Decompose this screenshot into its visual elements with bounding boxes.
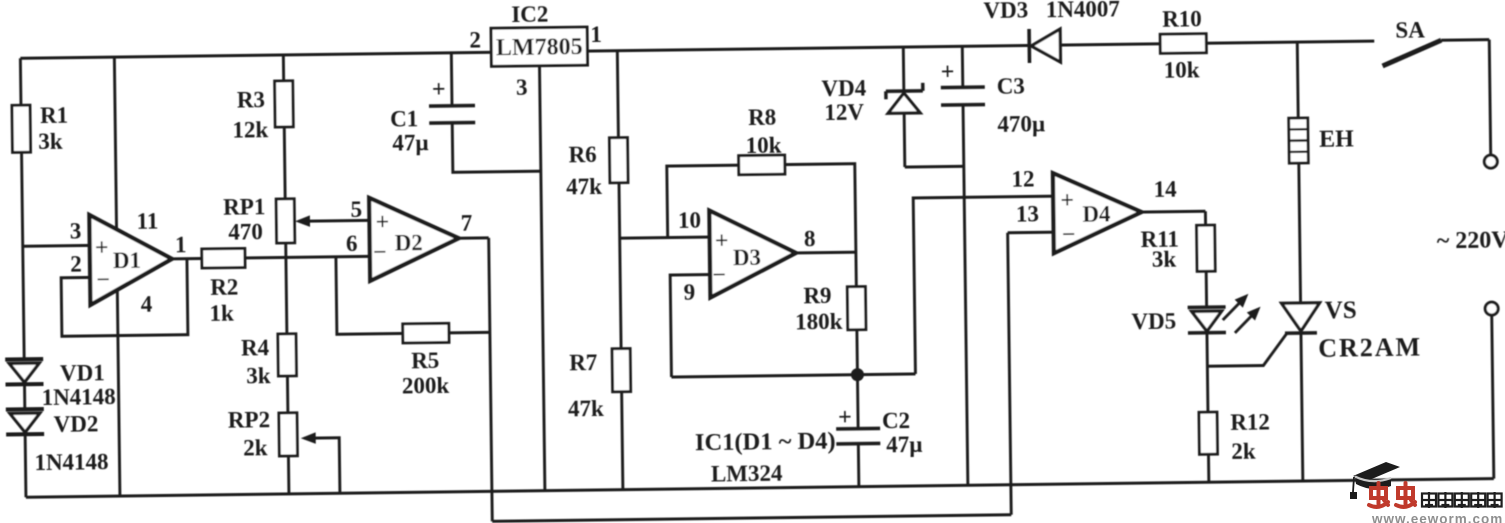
svg-text:D2: D2 (395, 230, 423, 255)
svg-text:470µ: 470µ (997, 111, 1045, 137)
LED VD5 emission arrows (1223, 299, 1244, 320)
svg-text:www.eeworm.com: www.eeworm.com (1371, 512, 1503, 523)
svg-text:CR2AM: CR2AM (1318, 332, 1422, 362)
svg-text:R7: R7 (569, 350, 597, 375)
terminal upper AC (1489, 40, 1490, 155)
svg-text:3k: 3k (38, 129, 63, 154)
capacitor C3 470u (961, 46, 964, 87)
svg-text:1k: 1k (209, 300, 234, 325)
svg-text:−: − (96, 267, 110, 293)
svg-text:R12: R12 (1230, 409, 1270, 435)
svg-text:7: 7 (461, 210, 473, 235)
watermark site name characters (1422, 492, 1436, 508)
wire RP1 wiper to D2 pin 5 (307, 219, 369, 223)
svg-text:VD5: VD5 (1131, 308, 1176, 334)
wire IC2 pin 3 ground lead (539, 66, 544, 491)
svg-text:R1: R1 (40, 102, 68, 127)
resistor R4 (286, 243, 287, 334)
svg-text:C1: C1 (390, 106, 418, 131)
resistor R12 (1199, 412, 1218, 454)
resistor R10 (1160, 34, 1206, 54)
resistor R5 feedback (336, 256, 403, 334)
wire left rail (19, 58, 22, 105)
svg-text:VD1: VD1 (60, 360, 105, 386)
svg-text:12V: 12V (824, 99, 864, 125)
watermark graduation cap logo (1350, 462, 1400, 499)
wire D3 output pin 8 (796, 251, 856, 255)
svg-text:VS: VS (1325, 297, 1357, 324)
resistor R9 (854, 252, 857, 286)
wire VD5 cathode to R12 (1207, 333, 1208, 412)
svg-text:1N4007: 1N4007 (1046, 0, 1120, 22)
svg-text:5: 5 (350, 197, 362, 222)
resistor R11 (1197, 225, 1216, 271)
svg-text:470: 470 (228, 219, 263, 244)
wire D1 output node (172, 257, 202, 260)
diode VD3 1N4007 (1027, 29, 1031, 63)
op-amp D4 (1053, 172, 1142, 253)
svg-text:1: 1 (175, 232, 187, 257)
svg-text:47k: 47k (566, 174, 602, 199)
svg-text:10k: 10k (1164, 57, 1200, 82)
svg-text:12k: 12k (232, 117, 268, 142)
resistor R8 hysteresis (667, 165, 740, 237)
wire lowest return rail (492, 515, 1011, 522)
svg-text:+: + (941, 60, 955, 86)
wire integrator node bus (671, 374, 915, 377)
svg-text:SA: SA (1395, 17, 1425, 42)
svg-text:VD3: VD3 (983, 0, 1028, 23)
svg-text:3k: 3k (246, 363, 271, 388)
wire D1 noninverting input pin 3 (23, 244, 90, 248)
svg-text:6: 6 (346, 231, 358, 256)
wire top supply rail (20, 52, 491, 58)
op-amp D1 (89, 214, 172, 305)
svg-text:2: 2 (70, 251, 82, 276)
svg-text:47µ: 47µ (392, 130, 429, 155)
svg-text:+: + (375, 210, 389, 236)
wire bottom ground rail (26, 479, 1494, 498)
wire D3 inverting input pin 9 loop (670, 275, 711, 378)
watermark chongchong red characters (1369, 483, 1388, 507)
svg-text:11: 11 (136, 208, 158, 233)
svg-text:9: 9 (683, 280, 695, 305)
svg-text:180k: 180k (795, 309, 843, 335)
wire D3 noninverting input pin 10 (620, 237, 710, 238)
wire D1 pin 11 supply lead (114, 57, 116, 229)
svg-text:IC2: IC2 (511, 1, 548, 26)
svg-text:VD4: VD4 (821, 75, 867, 101)
svg-text:200k: 200k (402, 373, 450, 399)
svg-text:10k: 10k (745, 132, 781, 157)
terminal lower AC (1485, 302, 1498, 315)
svg-text:13: 13 (1016, 201, 1039, 226)
potentiometer RP2 (279, 413, 298, 456)
wire D1 pin 4 ground lead (117, 290, 120, 496)
op-amp D2 (369, 197, 459, 281)
svg-text:1N4148: 1N4148 (41, 384, 115, 410)
svg-text:47µ: 47µ (886, 432, 923, 457)
node integrator junction (851, 369, 863, 381)
svg-text:R10: R10 (1162, 6, 1202, 32)
capacitor C2 (856, 375, 860, 429)
svg-text:R9: R9 (803, 283, 831, 308)
svg-text:RP1: RP1 (223, 194, 265, 220)
capacitor C1 (450, 53, 454, 106)
wire D4 output pin 14 (1141, 210, 1205, 214)
svg-text:−: − (712, 263, 726, 289)
svg-text:+: + (715, 229, 729, 255)
svg-text:+: + (1060, 188, 1074, 214)
wire supply filter to ground (963, 105, 968, 485)
svg-text:IC1(D1 ~ D4): IC1(D1 ~ D4) (695, 427, 836, 456)
svg-text:R2: R2 (210, 274, 238, 299)
svg-text:10: 10 (678, 207, 701, 232)
resistor R3 (282, 55, 285, 81)
potentiometer RP1 (276, 199, 295, 243)
resistor R6 (617, 51, 618, 138)
resistor R7 (612, 349, 631, 392)
svg-text:3: 3 (516, 75, 528, 100)
svg-text:R5: R5 (411, 348, 439, 373)
switch SA (1382, 40, 1441, 66)
svg-text:2k: 2k (243, 435, 268, 460)
diode VD2 1N4148 (6, 407, 44, 411)
svg-text:R8: R8 (748, 104, 776, 129)
wire RP2 wiper arm (304, 438, 340, 494)
svg-text:14: 14 (1153, 176, 1177, 201)
svg-text:D3: D3 (733, 245, 761, 270)
op-amp D3 (709, 209, 796, 297)
svg-text:47k: 47k (568, 396, 604, 421)
thyristor VS CR2AM (1282, 303, 1320, 331)
svg-text:R6: R6 (568, 142, 596, 167)
svg-text:12: 12 (1011, 166, 1034, 191)
svg-text:D1: D1 (113, 248, 141, 273)
svg-text:+: + (838, 405, 852, 431)
wire D1 feedback loop pin 2 (61, 259, 188, 337)
regulator IC2 LM7805 (491, 27, 587, 66)
svg-text:VD2: VD2 (53, 411, 98, 437)
svg-text:8: 8 (804, 226, 816, 251)
svg-text:D4: D4 (1082, 201, 1111, 226)
wire D4 inverting input pin 13 (1008, 231, 1054, 234)
svg-text:−: − (373, 240, 387, 266)
wire VS gate (1207, 333, 1287, 366)
svg-text:R3: R3 (237, 87, 265, 112)
svg-text:~ 220V: ~ 220V (1437, 228, 1505, 255)
heater element EH (1296, 42, 1300, 118)
zener diode VD4 12V (902, 47, 905, 91)
svg-text:EH: EH (1319, 127, 1354, 153)
svg-text:+: + (432, 77, 446, 103)
svg-text:C2: C2 (882, 408, 910, 433)
svg-text:LM324: LM324 (711, 460, 783, 486)
svg-text:2: 2 (469, 27, 481, 52)
svg-text:1N4148: 1N4148 (34, 449, 108, 475)
svg-text:4: 4 (141, 291, 153, 316)
svg-text:−: − (1062, 222, 1076, 248)
wire D2 output to D4 pin 13 bus (459, 236, 489, 239)
svg-text:LM7805: LM7805 (496, 34, 583, 61)
resistor R1 (12, 105, 31, 152)
svg-text:1: 1 (590, 22, 602, 47)
svg-text:3: 3 (70, 218, 82, 243)
resistor R2 (202, 248, 245, 268)
svg-text:+: + (95, 235, 109, 261)
svg-text:RP2: RP2 (228, 407, 270, 433)
svg-text:R4: R4 (241, 335, 270, 360)
svg-text:2k: 2k (1231, 438, 1256, 463)
LED VD5 (1188, 305, 1226, 309)
diode VD1 1N4148 (5, 357, 43, 361)
svg-text:3k: 3k (1152, 246, 1177, 271)
svg-text:C3: C3 (997, 73, 1025, 98)
